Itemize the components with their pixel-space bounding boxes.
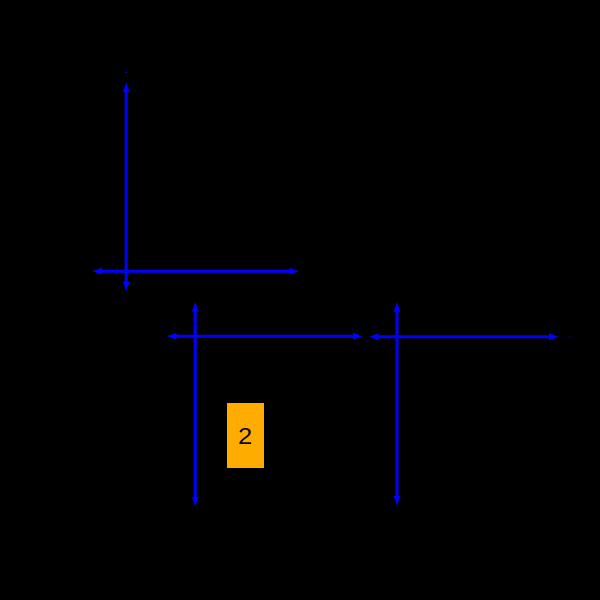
tick mark above axis 1 vertical xyxy=(125,72,127,73)
axis 2 horizontal line xyxy=(175,335,354,338)
axis 3 vertical down arrowhead xyxy=(394,496,401,506)
tick dot right of axis 3 horizontal xyxy=(569,336,571,337)
axis 3 horizontal line xyxy=(377,335,550,338)
axis 1 horizontal left arrowhead xyxy=(92,268,102,275)
orange box xyxy=(227,403,264,468)
axis 3 vertical line xyxy=(396,310,399,497)
axis 2 horizontal right arrowhead xyxy=(353,333,363,340)
axis 2 vertical down arrowhead xyxy=(192,497,199,507)
axis 1 vertical line xyxy=(125,91,128,284)
axis 1 horizontal line xyxy=(101,270,291,273)
axis 2 vertical line xyxy=(194,310,197,498)
axis 3 horizontal left arrowhead xyxy=(369,333,379,340)
axis 1 vertical down arrowhead xyxy=(123,282,130,292)
svg-text:2: 2 xyxy=(238,424,252,450)
axis 1 horizontal right arrowhead xyxy=(289,268,299,275)
axis 2 horizontal left arrowhead xyxy=(167,333,177,340)
axis 1 vertical up arrowhead xyxy=(123,82,130,92)
axis 3 horizontal right arrowhead xyxy=(549,333,559,340)
axis 3 vertical up arrowhead xyxy=(394,302,401,312)
axis 2 vertical up arrowhead xyxy=(192,302,199,312)
